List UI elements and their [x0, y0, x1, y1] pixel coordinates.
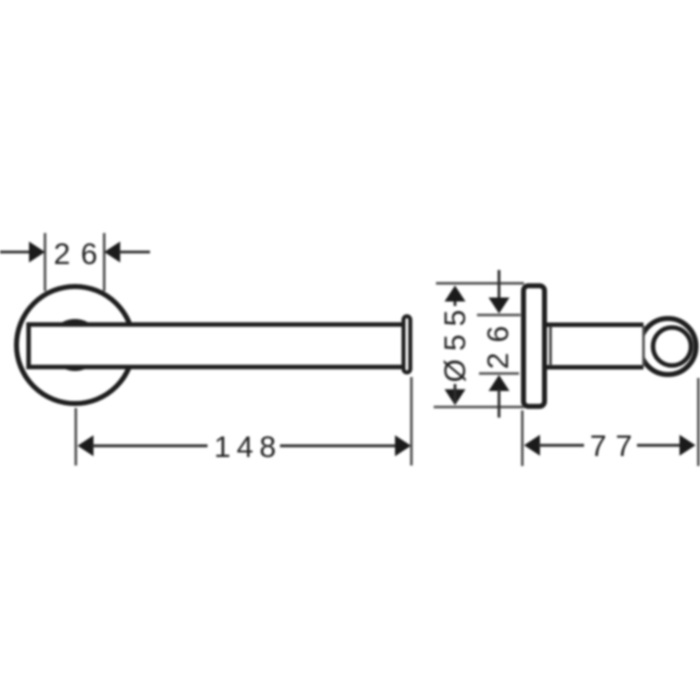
roll bar (front view) — [29, 325, 402, 368]
outer ring circle (side view) — [640, 319, 696, 375]
hub circle (front view) — [51, 321, 99, 369]
bar end cap (front view) — [404, 316, 411, 372]
dimension diameter 55 extension lines — [434, 283, 524, 407]
dimension 26 (side view) line and arrows — [489, 270, 510, 418]
dimension 148 extension lines — [76, 377, 412, 466]
dimension 26 (top left) extension lines — [45, 233, 104, 291]
roll bar (side view) — [546, 325, 644, 368]
dimension 26 (top left) lines and arrows — [0, 242, 150, 263]
svg-text:77: 77 — [590, 430, 641, 463]
svg-text:26: 26 — [54, 238, 108, 271]
svg-text:148: 148 — [214, 431, 282, 464]
inner ring circle (side view) — [653, 328, 691, 366]
dimension 77 lines and arrows — [524, 435, 696, 456]
svg-text:Ø55: Ø55 — [439, 302, 472, 383]
wall plate profile (side view) — [524, 286, 545, 407]
svg-text:26: 26 — [482, 316, 515, 369]
wall plate circle (front view) — [17, 287, 134, 404]
dimension 148 lines and arrows — [78, 435, 412, 456]
dimension 26 (side view) extension lines — [477, 315, 521, 374]
dimension 77 extension lines — [522, 378, 698, 466]
dimension diameter 55 line and arrows — [445, 286, 466, 406]
